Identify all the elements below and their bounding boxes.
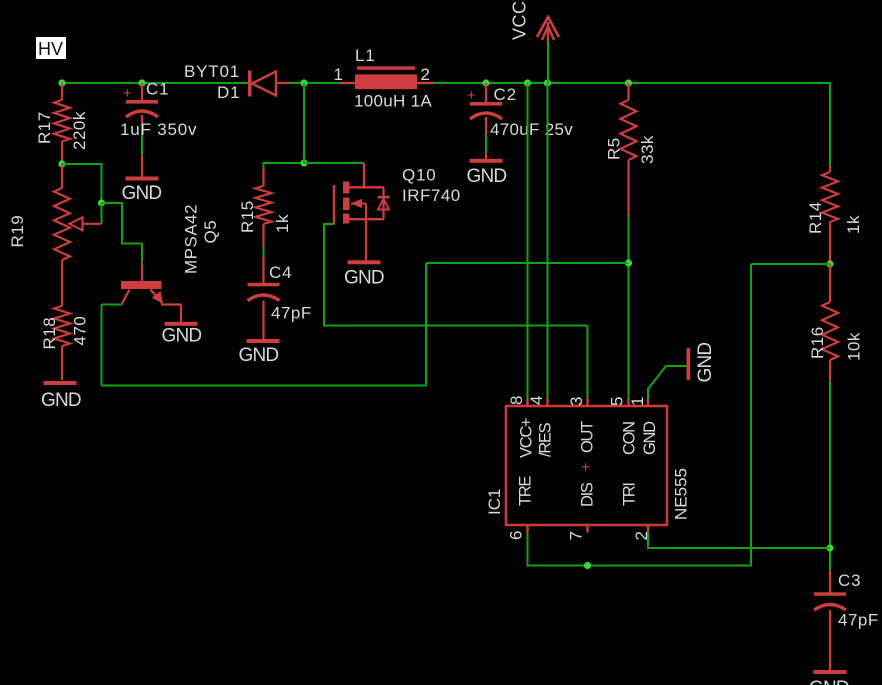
svg-text:DIS: DIS bbox=[579, 482, 597, 507]
svg-text:VCC+: VCC+ bbox=[518, 418, 536, 458]
svg-text:MPSA42: MPSA42 bbox=[182, 204, 201, 274]
svg-text:GND: GND bbox=[162, 326, 202, 347]
svg-text:47pF: 47pF bbox=[271, 304, 312, 323]
wire Q10 source to ground bbox=[365, 219, 367, 260]
svg-text:TRE: TRE bbox=[517, 476, 535, 506]
wire junction to wiper bbox=[101, 203, 103, 224]
ground R18 bbox=[44, 381, 77, 385]
ground Q5 bbox=[165, 322, 198, 326]
svg-text:100uH 1A: 100uH 1A bbox=[354, 92, 432, 111]
node TRI/C3 bbox=[826, 544, 833, 551]
wire HV rail left bbox=[62, 82, 248, 84]
wire THR/DIS net: pin6 pin7 to R14/R16 junction bbox=[527, 533, 529, 567]
IC1 top pin stub bbox=[647, 399, 649, 407]
svg-text:R17: R17 bbox=[35, 111, 54, 144]
svg-text:1: 1 bbox=[628, 397, 647, 406]
VCC supply symbol bbox=[547, 22, 549, 45]
ground pin1 (rotated) bbox=[687, 348, 691, 380]
ground C1 bbox=[126, 177, 159, 181]
svg-text:/RES: /RES bbox=[537, 422, 555, 457]
wire rail corner down to R14 bbox=[829, 82, 831, 166]
IC1 top pin stub bbox=[586, 399, 588, 407]
capacitor C4 47pF bbox=[248, 283, 280, 287]
IC1 top pin stub bbox=[546, 399, 548, 407]
wire junction to Q5 base bbox=[102, 202, 123, 204]
svg-text:GND: GND bbox=[239, 345, 279, 366]
wire VCC to pin 4 bbox=[547, 83, 549, 399]
svg-text:CON: CON bbox=[621, 422, 639, 455]
IC1 bottom pin stub bbox=[647, 525, 649, 533]
resistor R16 10k bbox=[829, 264, 831, 302]
resistor R5 33k bbox=[627, 83, 629, 100]
wire Q10 gate to 555 OUT bbox=[323, 223, 334, 225]
node rail/R17 bbox=[58, 79, 65, 86]
HV net label bbox=[36, 37, 66, 59]
node R17/R19 bbox=[58, 160, 65, 167]
svg-text:470: 470 bbox=[71, 316, 90, 346]
svg-text:R15: R15 bbox=[238, 200, 257, 233]
wire pin2 TRI to C3 bbox=[647, 533, 649, 550]
svg-text:1uF 350v: 1uF 350v bbox=[120, 120, 197, 139]
svg-text:4: 4 bbox=[527, 396, 546, 405]
resistor R14 1k bbox=[829, 165, 831, 172]
wire pin1 to ground bbox=[647, 388, 649, 399]
svg-text:VCC: VCC bbox=[510, 0, 530, 40]
potentiometer R19 bbox=[61, 164, 63, 188]
svg-text:6: 6 bbox=[507, 531, 526, 540]
node rail/VCC bbox=[544, 79, 551, 86]
svg-text:IRF740: IRF740 bbox=[402, 186, 461, 205]
wire R5 to pin5 bbox=[628, 215, 630, 399]
ground C2 bbox=[470, 159, 503, 163]
svg-text:L1: L1 bbox=[355, 46, 376, 65]
svg-text:C1: C1 bbox=[146, 80, 169, 99]
resistor R17 220k bbox=[61, 83, 63, 100]
wire rail to pin 8 bbox=[527, 83, 529, 399]
svg-text:R5: R5 bbox=[605, 137, 624, 160]
wire R17 bottom to wiper junction bbox=[62, 163, 102, 165]
node pin7 bbox=[584, 562, 591, 569]
Q10 body diode bbox=[382, 187, 384, 219]
mosfet Q10 IRF740 bbox=[304, 162, 364, 164]
node R15/drain bbox=[300, 159, 307, 166]
svg-text:Q10: Q10 bbox=[402, 166, 437, 185]
capacitor C3 47pF bbox=[829, 570, 831, 593]
node switch/L1/drain bbox=[300, 79, 307, 86]
svg-text:+: + bbox=[578, 462, 595, 471]
transistor Q5 MPSA42 bbox=[141, 262, 143, 282]
wire diode to switch node bbox=[289, 82, 341, 84]
svg-text:R14: R14 bbox=[806, 201, 825, 234]
svg-text:+: + bbox=[123, 85, 132, 102]
inductor L1 bbox=[340, 82, 356, 84]
wire CON net: R5 junction to Q5 collector bbox=[426, 262, 629, 264]
ic IC1 NE555 bbox=[506, 406, 667, 525]
IC1 top pin stub bbox=[627, 399, 629, 407]
resistor R18 470 bbox=[54, 306, 70, 346]
svg-text:R16: R16 bbox=[808, 326, 827, 359]
svg-text:R19: R19 bbox=[8, 215, 27, 248]
R19 wiper arrow bbox=[83, 223, 102, 225]
svg-text:3: 3 bbox=[567, 397, 586, 406]
ground Q10 bbox=[348, 260, 381, 264]
svg-text:R18: R18 bbox=[40, 317, 59, 350]
wire L1 to VCC rail right bbox=[433, 82, 831, 84]
node rail/C1 bbox=[138, 79, 145, 86]
svg-text:2: 2 bbox=[421, 65, 430, 84]
svg-text:1k: 1k bbox=[273, 214, 292, 233]
svg-text:BYT01: BYT01 bbox=[184, 62, 240, 81]
svg-text:OUT: OUT bbox=[579, 421, 597, 453]
node R5/CON wire bbox=[625, 259, 632, 266]
svg-text:C2: C2 bbox=[494, 85, 517, 104]
svg-text:GND: GND bbox=[122, 183, 162, 204]
svg-text:NE555: NE555 bbox=[672, 468, 691, 520]
node R14/R16 bbox=[826, 260, 833, 267]
ground C4 bbox=[247, 339, 280, 343]
svg-text:IC1: IC1 bbox=[485, 489, 504, 515]
svg-text:220k: 220k bbox=[70, 111, 89, 150]
node rail/pin8 wire bbox=[524, 79, 531, 86]
wire Q5 collector down bbox=[102, 304, 123, 306]
capacitor C2 470uF 25v bbox=[485, 83, 487, 102]
ground C3 bbox=[814, 670, 847, 674]
IC1 bottom pin stub bbox=[526, 525, 528, 533]
svg-text:10k: 10k bbox=[845, 332, 864, 361]
svg-text:+: + bbox=[467, 87, 476, 104]
svg-text:7: 7 bbox=[567, 531, 586, 540]
svg-text:1: 1 bbox=[334, 65, 343, 84]
svg-text:8: 8 bbox=[507, 396, 526, 405]
node wiper/base bbox=[98, 199, 105, 206]
svg-text:GND: GND bbox=[344, 268, 384, 289]
diode D1 BYT01 bbox=[248, 71, 252, 97]
svg-text:GND: GND bbox=[809, 678, 849, 685]
wire R16 to C3 bbox=[829, 381, 831, 572]
svg-text:D1: D1 bbox=[217, 83, 240, 102]
svg-text:C4: C4 bbox=[269, 263, 292, 282]
svg-text:C3: C3 bbox=[838, 571, 861, 590]
IC1 top pin stub bbox=[526, 399, 528, 407]
svg-text:TRI: TRI bbox=[621, 483, 639, 506]
IC1 bottom pin stub bbox=[586, 525, 588, 533]
wire switch node down bbox=[303, 83, 305, 163]
svg-text:GND: GND bbox=[467, 166, 507, 187]
svg-text:470uF 25v: 470uF 25v bbox=[490, 120, 573, 139]
svg-text:GND: GND bbox=[41, 390, 81, 411]
svg-text:33k: 33k bbox=[638, 135, 657, 164]
svg-text:47pF: 47pF bbox=[838, 611, 879, 630]
resistor R15 1k bbox=[263, 162, 305, 164]
svg-text:HV: HV bbox=[38, 39, 63, 59]
svg-text:GND: GND bbox=[641, 421, 659, 455]
svg-text:GND: GND bbox=[695, 343, 716, 383]
svg-text:5: 5 bbox=[608, 397, 627, 406]
node rail/C2 bbox=[482, 79, 489, 86]
svg-text:Q5: Q5 bbox=[201, 220, 220, 244]
svg-text:1k: 1k bbox=[844, 215, 863, 234]
node rail/R5 bbox=[625, 79, 632, 86]
wire Q5 emitter to ground bbox=[161, 303, 181, 305]
capacitor C1 1uF 350v bbox=[141, 83, 143, 100]
